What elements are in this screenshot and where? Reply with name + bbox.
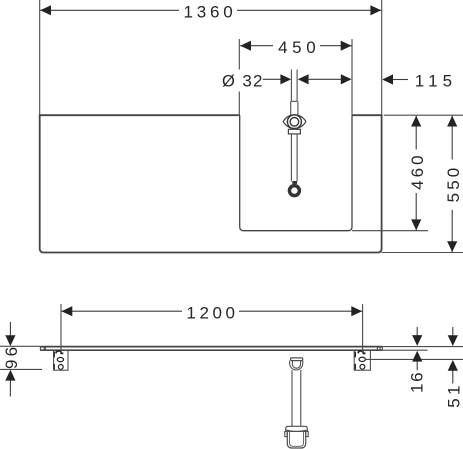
extension line trap cap level (for 51) xyxy=(366,358,463,360)
right bracket edge marks xyxy=(354,352,356,370)
drain outlet tab (plan view) xyxy=(292,181,297,184)
svg-text:96: 96 xyxy=(2,344,21,369)
trap cup inner wall xyxy=(290,431,304,446)
extension line slab top right (for 460/550) xyxy=(384,114,463,116)
dimension 1360 xyxy=(40,9,381,11)
drain fitting lens/eye (plan view) xyxy=(283,115,306,128)
right bracket screw hole xyxy=(360,364,365,369)
left bracket hook xyxy=(56,351,63,354)
basin bowl cut-out (plan view) xyxy=(240,115,352,231)
leader line for diameter 32 xyxy=(263,78,281,80)
dimension 115 xyxy=(382,74,393,84)
washbasin console slab outline (plan view) xyxy=(40,115,382,252)
extension line slab bottom right (for 16) xyxy=(382,349,427,351)
extension line slab bottom right (for 550) xyxy=(382,252,463,254)
dimension 450 xyxy=(240,45,351,47)
left wall bracket (front view) xyxy=(54,351,68,371)
extension line left for 1200 xyxy=(60,304,62,353)
svg-text:115: 115 xyxy=(415,72,457,91)
extension line right for 450 xyxy=(351,39,353,115)
slab left end cap xyxy=(40,347,45,350)
drain fitting ring (plan view) xyxy=(287,115,301,129)
drain outlet ring (plan view) xyxy=(290,186,299,195)
trap U collar xyxy=(290,361,303,370)
svg-text:Ø32: Ø32 xyxy=(222,72,264,91)
svg-text:460: 460 xyxy=(408,152,427,190)
dimension 460 xyxy=(415,116,417,231)
extension line left for 1360 xyxy=(39,0,41,115)
svg-text:450: 450 xyxy=(278,38,320,57)
extension line right for 1360 xyxy=(381,0,383,115)
dimension 51 xyxy=(452,327,454,384)
extension line left for 450 xyxy=(238,39,240,115)
drain pipe lower section (plan view) xyxy=(291,134,297,181)
svg-text:1360: 1360 xyxy=(183,3,236,22)
extension line slab top right (for 16/51) xyxy=(382,346,463,348)
slab bottom edge (front view) xyxy=(40,349,382,351)
drain fitting flange (plan view) xyxy=(288,129,300,134)
svg-text:1200: 1200 xyxy=(186,303,238,322)
trap cup body xyxy=(287,431,305,448)
left bracket edge marks xyxy=(53,352,55,370)
extension line slab top left (for 96) xyxy=(0,345,40,347)
svg-text:16: 16 xyxy=(407,371,426,393)
dimension 96 xyxy=(9,322,11,397)
right bracket slot hole xyxy=(359,357,365,361)
svg-text:550: 550 xyxy=(444,165,463,203)
trap cup ears xyxy=(285,431,308,436)
extension line right for 1200 xyxy=(362,304,364,353)
slab top edge (front view) xyxy=(40,346,382,348)
right wall bracket (front view) xyxy=(354,351,370,371)
left bracket screw hole xyxy=(58,365,63,370)
dimension 16 xyxy=(416,327,418,370)
slab right end cap xyxy=(377,347,382,350)
trap tail pipe (front view) xyxy=(292,370,301,426)
drain pipe upper section (plan view) xyxy=(291,70,298,116)
extension line basin bottom right (for 460) xyxy=(352,230,428,232)
trap cup rim xyxy=(286,426,308,431)
trap connection cap (front view) xyxy=(291,358,303,361)
svg-text:51: 51 xyxy=(444,382,463,408)
dimension line pipe to basin edge xyxy=(309,78,341,80)
extension line bracket bottom left (for 96) xyxy=(0,368,42,370)
dimension 1200 xyxy=(62,310,363,312)
dimension 550 xyxy=(451,116,453,252)
left bracket slot hole xyxy=(57,357,63,361)
right bracket hook xyxy=(358,351,365,354)
